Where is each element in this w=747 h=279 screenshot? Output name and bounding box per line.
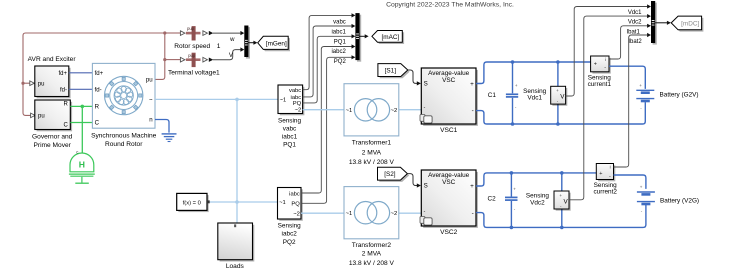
svg-text:VSC2: VSC2 — [440, 229, 458, 236]
wire fd+ — [69, 72, 93, 74]
svg-text:fd+: fd+ — [58, 71, 67, 77]
svg-text:H: H — [79, 159, 85, 169]
svg-text:-: - — [472, 210, 474, 217]
wire V to mux — [213, 47, 244, 59]
block f(x)=0 solver — [177, 193, 210, 212]
svg-text:-: - — [472, 108, 474, 115]
svg-text:vabc: vabc — [289, 88, 301, 94]
svg-text:S: S — [424, 183, 428, 190]
block Sensing Vdc2 — [526, 191, 571, 211]
wire AC drop to loads node — [236, 99, 238, 202]
svg-text:[S1]: [S1] — [385, 67, 397, 74]
ground electrical — [162, 134, 177, 142]
wire n to ground — [155, 120, 169, 133]
svg-text:current1: current1 — [588, 81, 612, 88]
wire AC machine to sensing1 — [155, 98, 278, 100]
svg-text:iabc2: iabc2 — [282, 231, 298, 238]
wire S2 to VSC2 — [407, 174, 421, 188]
svg-text:VSC: VSC — [442, 179, 456, 186]
svg-text:V: V — [229, 53, 233, 59]
svg-text:+: + — [594, 61, 597, 67]
wire solver to node — [210, 201, 278, 203]
svg-text:+: + — [639, 83, 642, 88]
svg-text:Average-value: Average-value — [428, 172, 470, 179]
block Sensing current1 — [588, 56, 612, 88]
svg-text:PQ: PQ — [291, 202, 300, 208]
wire w to mux — [213, 31, 244, 43]
wire DC bus1 negative rail — [476, 102, 645, 124]
junction DC bus1 dots — [511, 60, 560, 126]
block AVR and Exciter — [28, 56, 77, 98]
svg-text:+: + — [640, 185, 643, 190]
svg-text:iabc1: iabc1 — [282, 133, 298, 140]
machine icon — [105, 76, 143, 114]
block H reference — [69, 150, 95, 184]
goto tag [mDC] — [671, 16, 703, 32]
svg-text:Sensing: Sensing — [278, 222, 302, 229]
svg-text:Vdc1: Vdc1 — [628, 10, 642, 16]
wire transformer1 to VSC1 — [399, 109, 422, 111]
wire V1 sensor vertical — [557, 62, 559, 124]
mux Mux1 — [244, 26, 257, 59]
junction AC dots — [235, 98, 239, 102]
svg-text:[mAC]: [mAC] — [382, 34, 400, 41]
svg-text:Sensing: Sensing — [526, 192, 550, 199]
svg-text:[mDC]: [mDC] — [681, 21, 699, 28]
port arrow into AVR pu — [30, 81, 35, 86]
svg-text:+: + — [470, 81, 474, 88]
block VSC1 — [420, 68, 478, 134]
svg-text:+: + — [559, 193, 562, 198]
block Sensing Vdc1 — [523, 86, 567, 106]
svg-text:Loads: Loads — [226, 263, 245, 270]
svg-text:+: + — [513, 186, 516, 191]
svg-text:R: R — [95, 104, 100, 111]
block Sensing vabc iabc1 PQ1 — [278, 85, 304, 148]
svg-text:Battery (G2V): Battery (G2V) — [660, 91, 699, 98]
block Sensing current2 — [593, 164, 617, 196]
svg-text:Average-value: Average-value — [428, 70, 470, 77]
block Loads — [218, 223, 255, 270]
wire node to Loads — [236, 202, 238, 223]
svg-text:+: + — [599, 171, 602, 177]
svg-text:i: i — [610, 165, 611, 170]
wire Vdc2 to mux3 — [569, 14, 651, 200]
svg-text:Terminal voltage1: Terminal voltage1 — [168, 70, 220, 77]
mux Mux2 — [331, 13, 368, 65]
wire R (mechanical green) — [70, 105, 92, 107]
wire DC bus1 positive rail — [476, 62, 591, 84]
svg-text:+: + — [515, 83, 518, 88]
wire iabc2 to mux2 — [301, 44, 355, 193]
wire vabc to mux2 — [303, 13, 356, 89]
svg-text:13.8 kV / 208 V: 13.8 kV / 208 V — [349, 260, 395, 267]
wire DC bus2 positive rail — [476, 173, 596, 186]
svg-text:+: + — [556, 88, 559, 93]
svg-text:[mGen]: [mGen] — [266, 40, 287, 47]
svg-text:Transformer1: Transformer1 — [352, 140, 392, 147]
wire V2 sensor vertical — [561, 173, 563, 228]
wire Vdc1 to mux3 — [566, 4, 651, 96]
svg-text:Vdc1: Vdc1 — [527, 94, 542, 101]
wire S1 to VSC1 — [408, 70, 421, 86]
svg-text:Round Rotor: Round Rotor — [105, 141, 143, 148]
battery Battery (V2G) — [637, 192, 655, 204]
svg-text:iabc: iabc — [289, 191, 300, 197]
wire DC bus2 negative rail — [476, 205, 646, 228]
svg-text:C: C — [95, 120, 100, 127]
svg-text:2 MVA: 2 MVA — [362, 149, 382, 156]
svg-text:~1: ~1 — [279, 200, 286, 206]
wire pu feedback net (maroon) — [23, 33, 180, 115]
wire current2 to battery2 — [614, 175, 646, 189]
block Governor and Prime Mover — [32, 100, 73, 149]
svg-text:pup: pup — [187, 26, 195, 31]
svg-text:fd-: fd- — [60, 88, 67, 94]
converter Rotor speed 1 — [174, 26, 221, 50]
wire sensing2 to transformer2 — [301, 212, 344, 214]
converter Terminal voltage1 — [168, 53, 220, 77]
svg-text:PQ2: PQ2 — [334, 59, 347, 65]
svg-text:S: S — [424, 81, 428, 88]
wire to hydraulic reference — [81, 106, 83, 153]
svg-text:iabc1: iabc1 — [331, 30, 346, 36]
svg-text:fd+: fd+ — [95, 70, 104, 77]
block Sensing iabc2 PQ2 — [278, 188, 303, 246]
svg-text:~2: ~2 — [391, 108, 398, 114]
svg-text:~2: ~2 — [391, 211, 398, 217]
wire current1 to battery1 — [609, 66, 645, 89]
junction DC bus2 dots — [510, 171, 564, 229]
svg-text:w: w — [229, 37, 235, 43]
svg-text:Prime Mover: Prime Mover — [34, 142, 72, 149]
svg-text:pup: pup — [188, 53, 196, 58]
wire transformer2 to VSC2 — [399, 212, 422, 214]
from tag [S2] — [378, 167, 410, 182]
svg-text:Rotor speed: Rotor speed — [174, 43, 210, 50]
capacitor C2 — [505, 173, 518, 228]
wire iabc1 to mux2 — [303, 24, 356, 97]
svg-text:Synchronous Machine: Synchronous Machine — [91, 133, 157, 140]
svg-text:-: - — [604, 65, 606, 71]
svg-text:Copyright 2022-2023 The MathWo: Copyright 2022-2023 The MathWorks, Inc. — [386, 1, 514, 8]
svg-text:Governor and: Governor and — [32, 133, 73, 140]
svg-text:1: 1 — [217, 43, 221, 50]
svg-text:AVR and Exciter: AVR and Exciter — [28, 56, 77, 63]
svg-text:PQ1: PQ1 — [334, 39, 347, 45]
wire fd- — [69, 88, 93, 90]
block Synchronous Machine Round Rotor — [91, 63, 157, 148]
goto tag [mAC] — [372, 31, 404, 45]
svg-text:Vdc2: Vdc2 — [530, 199, 545, 206]
svg-text:iabc2: iabc2 — [331, 49, 346, 55]
svg-text:Transformer2: Transformer2 — [352, 242, 392, 249]
svg-text:vabc: vabc — [283, 125, 297, 132]
svg-text:[S2]: [S2] — [384, 171, 396, 178]
svg-text:R: R — [63, 102, 68, 108]
svg-text:f(x) = 0: f(x) = 0 — [183, 200, 201, 206]
svg-text:pu: pu — [38, 81, 45, 87]
svg-text:VSC1: VSC1 — [440, 127, 458, 134]
svg-text:fd-: fd- — [95, 87, 102, 94]
goto tag [mGen] — [258, 36, 290, 51]
mux Mux3 — [626, 1, 670, 45]
svg-text:Ibat1: Ibat1 — [626, 30, 640, 36]
junction pu net dots — [21, 31, 166, 84]
wire Ibat1 to mux3 — [609, 24, 651, 59]
from tag [S1] — [378, 64, 410, 79]
svg-text:C1: C1 — [488, 92, 497, 99]
battery Battery (G2V) — [636, 90, 654, 101]
svg-text:i: i — [605, 57, 606, 62]
svg-text:iabc: iabc — [291, 95, 302, 101]
block VSC2 — [420, 170, 478, 236]
svg-text:current2: current2 — [593, 188, 617, 195]
svg-text:pu: pu — [146, 77, 153, 84]
wire PQ1 to mux2 — [303, 34, 356, 103]
junction green dot — [81, 105, 85, 109]
svg-text:PQ: PQ — [293, 101, 302, 107]
svg-text:~2: ~2 — [295, 108, 302, 114]
svg-text:pu: pu — [38, 114, 45, 120]
svg-text:VSC: VSC — [442, 77, 456, 84]
svg-text:~1: ~1 — [346, 211, 353, 217]
svg-text:vabc: vabc — [333, 20, 346, 26]
block Transformer1 — [344, 84, 399, 166]
svg-text:C2: C2 — [488, 196, 497, 203]
port arrow into Governor pu — [31, 113, 35, 118]
wire PQ2 to mux2 — [301, 55, 355, 203]
svg-text:-: - — [609, 174, 611, 180]
svg-text:Battery (V2G): Battery (V2G) — [660, 197, 699, 204]
svg-text:PQ2: PQ2 — [283, 239, 296, 246]
svg-text:2 MVA: 2 MVA — [362, 251, 382, 258]
svg-text:PQ1: PQ1 — [283, 141, 296, 148]
svg-text:~: ~ — [149, 97, 153, 104]
svg-text:+: + — [470, 183, 474, 190]
wire sensing1 to transformer1 — [303, 109, 344, 111]
svg-text:~1: ~1 — [280, 97, 287, 103]
svg-text:Sensing: Sensing — [278, 117, 302, 124]
svg-text:Vdc2: Vdc2 — [628, 20, 642, 26]
svg-text:n: n — [149, 117, 152, 124]
wire C (mechanical green) — [70, 122, 92, 124]
svg-text:13.8 kV / 208 V: 13.8 kV / 208 V — [349, 159, 395, 166]
svg-text:Ibat2: Ibat2 — [628, 39, 642, 45]
svg-text:~1: ~1 — [346, 108, 353, 114]
wire Ibat2 to mux3 — [614, 33, 652, 167]
block Transformer2 — [344, 187, 399, 267]
svg-text:~2: ~2 — [293, 211, 300, 217]
svg-text:C: C — [63, 123, 68, 129]
capacitor C1 — [506, 62, 518, 124]
